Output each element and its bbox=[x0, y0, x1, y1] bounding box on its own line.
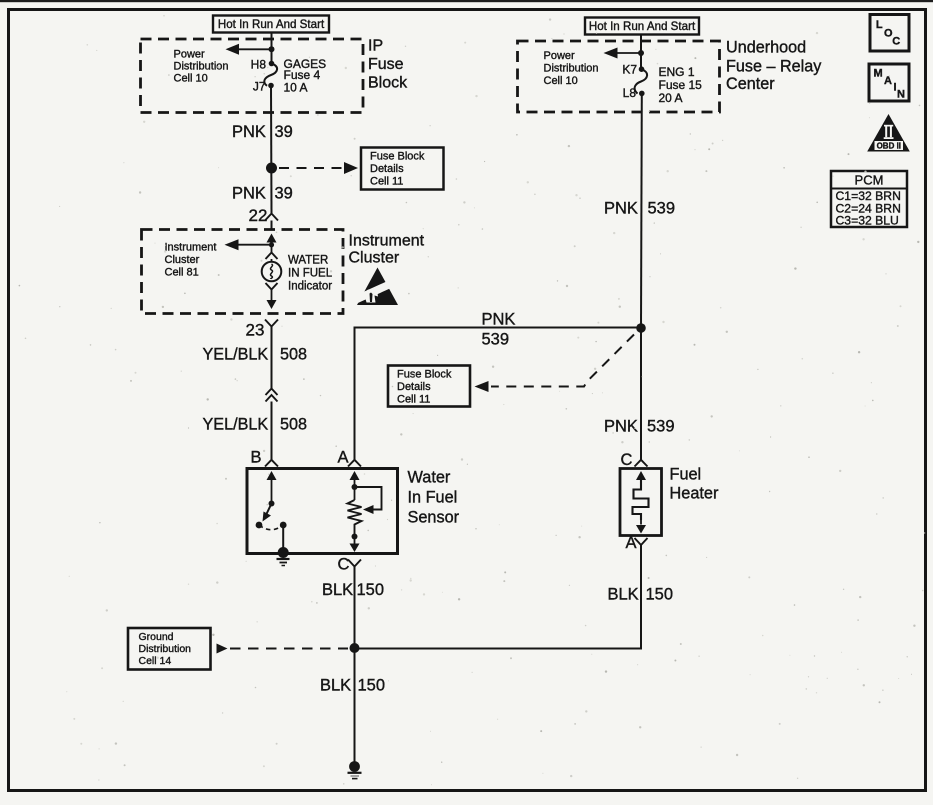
legend box PCM connectors bbox=[831, 171, 907, 228]
wire label BLK 150 (heater) bbox=[608, 586, 674, 604]
wire label BLK 150 (bottom) bbox=[320, 677, 385, 695]
svg-text:Distribution: Distribution bbox=[544, 63, 599, 75]
svg-text:Cell 11: Cell 11 bbox=[397, 394, 430, 406]
dashed arrow to Fuse Block Details (upper) bbox=[279, 162, 358, 174]
svg-text:22: 22 bbox=[249, 206, 268, 225]
pin label H8 bbox=[251, 58, 267, 72]
pin 22 connector into instrument cluster bbox=[249, 206, 279, 230]
svg-text:Indicator: Indicator bbox=[288, 281, 332, 293]
wire label PNK 39 (upper) bbox=[232, 123, 293, 141]
svg-text:Distribution: Distribution bbox=[139, 643, 192, 655]
svg-text:C: C bbox=[338, 556, 350, 574]
svg-text:150: 150 bbox=[357, 581, 385, 599]
node: ground splice S2 bbox=[350, 643, 360, 653]
label: IP Fuse Block bbox=[368, 38, 408, 92]
arrow to Power Distribution Cell 10 (left) bbox=[226, 44, 272, 55]
wire: PNK 539 branch to sensor pin A bbox=[355, 328, 642, 460]
label: Instrument Cluster (right of box) bbox=[349, 233, 425, 267]
arrow to Power Distribution Cell 10 (right) bbox=[604, 48, 642, 59]
svg-text:A: A bbox=[884, 75, 892, 87]
dashed pointer from Ground Distribution box to ground splice bbox=[217, 644, 349, 654]
svg-text:Water: Water bbox=[408, 469, 451, 487]
svg-text:PNK: PNK bbox=[482, 311, 516, 329]
resistor (water sensing element) bbox=[348, 500, 362, 552]
svg-text:ENG 1: ENG 1 bbox=[659, 65, 695, 79]
svg-text:PNK: PNK bbox=[604, 200, 638, 218]
pin A connector bbox=[338, 449, 362, 467]
svg-text:Center: Center bbox=[726, 75, 775, 93]
svg-text:150: 150 bbox=[358, 677, 386, 695]
svg-text:Heater: Heater bbox=[670, 485, 719, 503]
wire: hot feed into underhood center bbox=[640, 35, 642, 69]
wire: BLK 150 from sensor C bbox=[354, 567, 356, 644]
svg-text:Cluster: Cluster bbox=[349, 250, 400, 267]
inline connector C100 (double chevron) bbox=[266, 389, 278, 402]
svg-text:150: 150 bbox=[646, 586, 674, 604]
node: splice S3 on PNK 539 bbox=[636, 323, 646, 333]
svg-text:Cell 10: Cell 10 bbox=[544, 75, 578, 87]
label box: Hot In Run And Start (left) bbox=[213, 16, 329, 33]
node: splice S1 on PNK 39 bbox=[266, 163, 277, 174]
svg-text:Hot In Run And Start: Hot In Run And Start bbox=[589, 20, 696, 33]
wire label PNK 539 (branch) bbox=[482, 311, 516, 349]
label: Fuel Heater bbox=[670, 466, 719, 503]
wire: PNK 539 from fuse down bbox=[640, 93, 643, 327]
svg-text:C: C bbox=[621, 451, 633, 469]
svg-text:L: L bbox=[876, 19, 883, 31]
svg-text:BLK: BLK bbox=[608, 586, 639, 604]
svg-text:PCM: PCM bbox=[855, 173, 884, 188]
svg-text:C3=32 BLU: C3=32 BLU bbox=[836, 214, 899, 228]
svg-text:Hot In Run And Start: Hot In Run And Start bbox=[218, 18, 325, 31]
svg-text:IP: IP bbox=[368, 38, 383, 55]
pin label K7 bbox=[622, 63, 637, 77]
svg-text:YEL/BLK: YEL/BLK bbox=[203, 346, 269, 364]
svg-text:Block: Block bbox=[368, 75, 408, 92]
svg-text:539: 539 bbox=[647, 418, 675, 436]
dashed pointer from splice S3 to Fuse Block Details (lower) bbox=[475, 335, 635, 393]
wire label YEL/BLK 508 (lower) bbox=[203, 416, 308, 434]
node: junction inside instrument cluster bbox=[269, 242, 274, 247]
svg-text:PNK: PNK bbox=[232, 185, 266, 203]
svg-text:Fuse Block: Fuse Block bbox=[370, 151, 425, 163]
label: Underhood Fuse-Relay Center bbox=[726, 39, 822, 94]
pin label L8 bbox=[623, 86, 637, 100]
label box: Fuse Block Details Cell 11 (lower) bbox=[388, 366, 470, 407]
pin C connector (fuel heater) bbox=[621, 328, 648, 470]
Underhood fuse-relay center dashed box bbox=[518, 41, 720, 112]
wire: PNK 39 from fuse to splice bbox=[270, 86, 273, 214]
svg-text:Underhood: Underhood bbox=[726, 39, 806, 57]
wire: lamp to pin 23, arrow down bbox=[266, 283, 278, 309]
svg-text:WATER: WATER bbox=[288, 255, 328, 267]
label box: Fuse Block Details Cell 11 (upper) bbox=[361, 148, 444, 190]
svg-text:In Fuel: In Fuel bbox=[408, 489, 458, 507]
label: Power Distribution Cell 10 (right) bbox=[544, 50, 599, 87]
svg-text:A: A bbox=[626, 534, 637, 552]
label box: Hot In Run And Start (right) bbox=[585, 18, 699, 35]
node: junction to power distribution (left) bbox=[269, 46, 275, 52]
svg-text:Fuse Block: Fuse Block bbox=[397, 369, 452, 381]
svg-text:Cell 10: Cell 10 bbox=[174, 73, 208, 85]
pin C connector bbox=[338, 556, 362, 574]
wire label PNK 539 (upper right) bbox=[604, 200, 675, 218]
svg-text:39: 39 bbox=[275, 123, 293, 141]
label: Instrument Cluster Cell 81 bbox=[165, 242, 217, 279]
svg-text:Fuel: Fuel bbox=[670, 466, 702, 484]
svg-text:C: C bbox=[892, 36, 900, 48]
svg-text:10 A: 10 A bbox=[284, 81, 308, 95]
value label: GAGES Fuse 4 10 A bbox=[284, 57, 327, 95]
node: junction to power distribution (right) bbox=[638, 50, 644, 56]
wire: arrow up inside instrument cluster bbox=[267, 234, 277, 245]
svg-text:Sensor: Sensor bbox=[408, 509, 460, 527]
indicator lamp: WATER IN FUEL bbox=[262, 262, 282, 282]
svg-text:508: 508 bbox=[280, 416, 307, 434]
svg-text:23: 23 bbox=[246, 321, 265, 340]
svg-text:Cell 11: Cell 11 bbox=[370, 176, 403, 188]
value label: ENG 1 Fuse 15 20 A bbox=[659, 65, 703, 105]
wire label PNK 539 (at heater) bbox=[604, 418, 675, 436]
svg-text:539: 539 bbox=[482, 331, 510, 349]
wire label BLK 150 (sensor) bbox=[322, 581, 384, 599]
label: WATER IN FUEL Indicator bbox=[288, 255, 333, 293]
svg-text:Power: Power bbox=[544, 50, 576, 62]
instrument cluster dashed box bbox=[142, 230, 344, 314]
svg-text:Instrument: Instrument bbox=[165, 242, 217, 254]
label box: Ground Distribution Cell 14 bbox=[128, 628, 211, 670]
svg-text:PNK: PNK bbox=[604, 418, 638, 436]
switch contact (pin B side) inside sensor bbox=[256, 471, 287, 551]
svg-text:20 A: 20 A bbox=[659, 91, 683, 105]
ground G1 (chassis) bbox=[348, 761, 362, 779]
svg-text:39: 39 bbox=[275, 185, 293, 203]
wire: YEL/BLK 508 upper segment bbox=[271, 327, 273, 389]
heater element inside fuel heater bbox=[633, 471, 649, 534]
svg-text:Cell 81: Cell 81 bbox=[165, 267, 199, 279]
svg-text:BLK: BLK bbox=[322, 581, 353, 599]
svg-text:IN FUEL: IN FUEL bbox=[288, 268, 333, 280]
IP fuse block dashed box bbox=[141, 39, 364, 113]
fuse F1: GAGES Fuse 4 10A bbox=[264, 61, 277, 89]
legend box LOC bbox=[870, 15, 909, 52]
component box: Fuel Heater bbox=[620, 469, 662, 536]
svg-text:Power: Power bbox=[174, 49, 206, 61]
ground (sensor case) bbox=[277, 547, 290, 566]
arrow to Instrument Cluster Cell 81 bbox=[225, 239, 272, 250]
svg-text:H8: H8 bbox=[251, 58, 267, 72]
wire: from junction to lamp bbox=[266, 245, 278, 262]
fuse F2: ENG 1 Fuse 15 20A bbox=[635, 66, 647, 96]
svg-text:Instrument: Instrument bbox=[349, 233, 425, 250]
svg-text:Fuse – Relay: Fuse – Relay bbox=[726, 58, 822, 76]
svg-text:OBD II: OBD II bbox=[877, 142, 901, 151]
pin B connector bbox=[251, 449, 279, 467]
svg-text:L8: L8 bbox=[623, 86, 637, 100]
wire: BLK 150 to ground bbox=[354, 648, 356, 762]
pin label J7 bbox=[253, 80, 266, 94]
svg-text:Details: Details bbox=[370, 163, 404, 175]
svg-text:Ground: Ground bbox=[139, 631, 174, 643]
ESD sensitive symbol bbox=[351, 268, 398, 306]
svg-text:J7: J7 bbox=[253, 80, 266, 94]
svg-text:BLK: BLK bbox=[320, 677, 351, 695]
svg-text:YEL/BLK: YEL/BLK bbox=[203, 416, 269, 434]
svg-text:508: 508 bbox=[280, 346, 307, 364]
label: Power Distribution Cell 10 (left) bbox=[174, 49, 229, 85]
label: Water In Fuel Sensor bbox=[408, 469, 460, 527]
wire: hot feed into IP fuse block bbox=[271, 33, 273, 64]
svg-text:A: A bbox=[338, 449, 349, 467]
svg-text:N: N bbox=[897, 89, 905, 101]
svg-text:Details: Details bbox=[397, 381, 431, 393]
sensor element (pin A side) with resistor bbox=[350, 471, 382, 514]
svg-text:539: 539 bbox=[648, 200, 676, 218]
pin 23 connector out of instrument cluster bbox=[246, 320, 279, 340]
wire: BLK 150 from heater to ground splice bbox=[355, 545, 642, 649]
wire label YEL/BLK 508 (upper) bbox=[203, 346, 308, 364]
legend symbol OBD II triangle bbox=[867, 114, 910, 152]
component box: Water In Fuel Sensor bbox=[247, 469, 398, 554]
svg-text:PNK: PNK bbox=[232, 123, 266, 141]
svg-text:K7: K7 bbox=[622, 63, 637, 77]
svg-text:Fuse: Fuse bbox=[368, 56, 404, 73]
svg-text:Distribution: Distribution bbox=[174, 61, 229, 73]
svg-text:B: B bbox=[251, 449, 262, 467]
svg-text:Cell 14: Cell 14 bbox=[139, 655, 172, 667]
svg-text:M: M bbox=[874, 68, 883, 80]
pin A connector (fuel heater) bbox=[626, 534, 648, 552]
wire label PNK 39 (lower) bbox=[232, 185, 293, 203]
wire: YEL/BLK 508 lower segment bbox=[271, 402, 273, 460]
svg-text:Fuse 15: Fuse 15 bbox=[659, 78, 703, 92]
legend box MAIN bbox=[869, 64, 909, 101]
svg-text:Cluster: Cluster bbox=[165, 254, 200, 266]
